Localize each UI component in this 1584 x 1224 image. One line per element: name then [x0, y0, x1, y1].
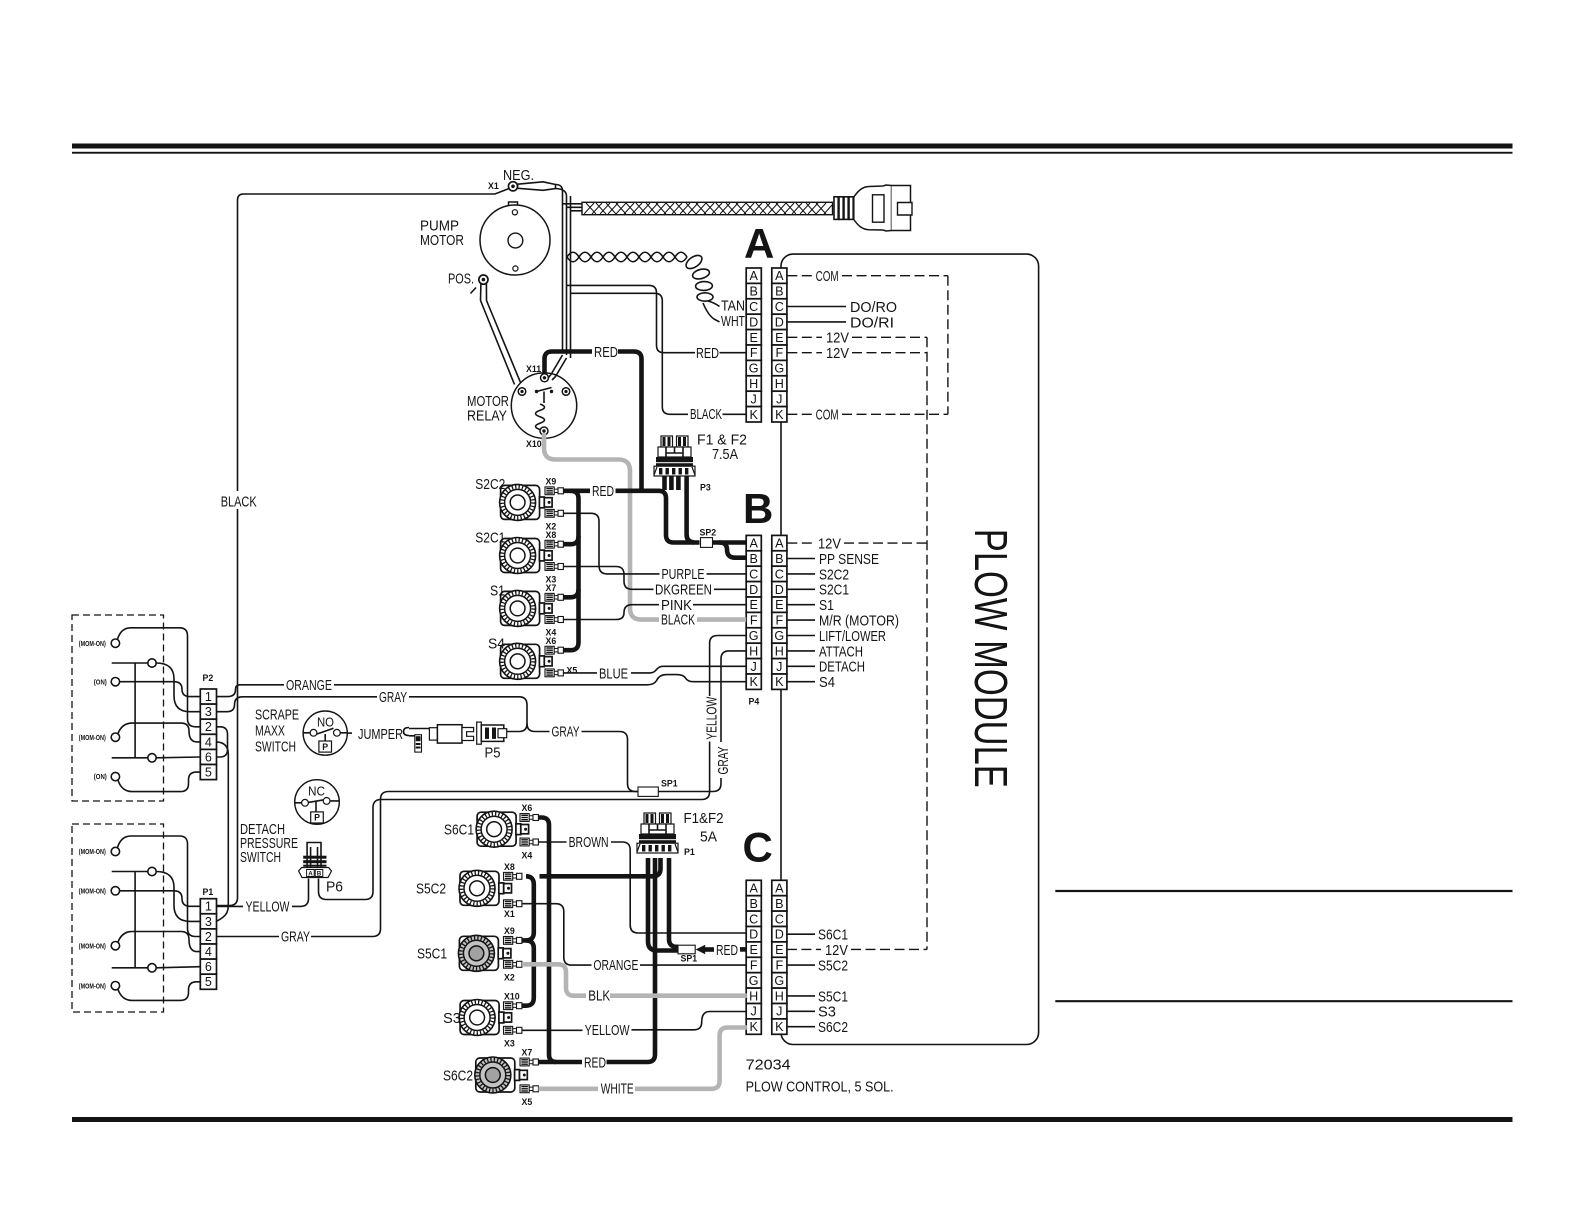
POS ring terminal: [471, 275, 489, 301]
svg-text:(ON): (ON): [94, 773, 108, 781]
twisted pair bend down: [684, 253, 713, 301]
gray wire relay X10 to B-F: [544, 433, 659, 620]
connector B left column: [746, 535, 761, 689]
svg-text:X8: X8: [504, 862, 515, 872]
svg-text:S6C2: S6C2: [443, 1067, 473, 1084]
svg-text:(ON): (ON): [94, 678, 108, 686]
thick branch to B-B: [719, 543, 746, 558]
svg-text:SP1: SP1: [661, 779, 678, 789]
wire DO/RI A-D: [787, 321, 846, 323]
jumper wires to P5: [409, 729, 429, 736]
svg-text:P5: P5: [485, 745, 501, 762]
svg-text:NC: NC: [308, 783, 325, 798]
NC switch: [295, 780, 340, 825]
X5 plug bottom: [520, 1085, 538, 1093]
fuse P3 stub 4: [687, 476, 695, 543]
dashed 12V wire A-F: [787, 352, 822, 354]
P2 connector: [200, 689, 216, 780]
X7 plug: [520, 1058, 538, 1066]
svg-text:P1: P1: [203, 887, 214, 897]
box1 wire c1 to P2-2: [118, 628, 201, 727]
X6 plug: [520, 814, 538, 822]
thick X8 wire to fuse 5A: [540, 858, 661, 876]
SP2 splice: [701, 538, 713, 548]
svg-text:S2C2: S2C2: [475, 476, 505, 493]
wire C-K S6C2: [787, 1026, 815, 1028]
box1 link c2-c5: [134, 663, 136, 758]
svg-text:BLUE: BLUE: [599, 665, 628, 682]
box2 wire c2 to P1-3: [156, 872, 200, 922]
svg-text:PLOW MODULE: PLOW MODULE: [965, 529, 1017, 788]
svg-text:X1: X1: [504, 909, 515, 919]
box2 wire c3 to P1-1: [120, 891, 201, 907]
box2 wire c2 stub: [112, 871, 148, 873]
wire SP1 to GRAY riser to B-H: [658, 778, 721, 792]
P5 connector left half: [429, 725, 473, 743]
box2 wire c5 to P1-6: [156, 967, 200, 968]
X7 plug: [545, 593, 563, 601]
connector C right column: [772, 880, 787, 1034]
thick wire SP2 to B-A: [713, 540, 747, 545]
thick trunk X8-X9: [522, 876, 534, 940]
solenoid S2C2: [500, 484, 553, 520]
svg-text:SWITCH: SWITCH: [240, 849, 281, 866]
POS cable to relay: [481, 301, 521, 385]
top border rule thin: [72, 152, 1513, 154]
fuse 5A stub to SP1 left: [648, 858, 678, 951]
svg-text:RED: RED: [696, 345, 719, 362]
fuse F1&F2 5A (P1): [637, 813, 678, 853]
wire X3 YELLOW to C-J: [522, 1029, 583, 1031]
dashed COM wire A-K: [787, 413, 812, 415]
trim connector: [415, 735, 422, 752]
svg-text:NEG.: NEG.: [503, 167, 534, 184]
wire C-D S6C1: [787, 933, 815, 935]
svg-text:JUMPER: JUMPER: [358, 726, 403, 743]
svg-text:S6C1: S6C1: [818, 927, 848, 944]
solenoid S5C1 (gray): [458, 935, 511, 971]
braided cable: [582, 202, 833, 214]
svg-text:X7: X7: [522, 1048, 533, 1058]
pump motor: [480, 202, 550, 275]
wire GRAY to P5 junction: [409, 697, 527, 732]
svg-text:SP2: SP2: [700, 528, 717, 538]
svg-text:WHITE: WHITE: [601, 1081, 634, 1098]
svg-text:P6: P6: [326, 879, 343, 896]
svg-text:P4: P4: [749, 697, 760, 707]
X3 plug bottom: [504, 1026, 522, 1034]
wire B-C S2C2: [787, 573, 815, 575]
wire X1 ORANGE to C-F: [522, 904, 592, 965]
SP1 splice left: [638, 787, 658, 796]
svg-text:GRAY: GRAY: [715, 747, 732, 775]
svg-text:X10: X10: [526, 439, 542, 449]
box1 wire c6 to P2-5: [118, 772, 200, 792]
svg-text:GRAY: GRAY: [379, 689, 407, 706]
box1 c5 left stub: [112, 757, 148, 759]
svg-text:X3: X3: [504, 1039, 515, 1049]
box2 wire c6 to P1-5: [118, 982, 200, 1001]
X2 plug: [545, 509, 563, 517]
solenoid S6C2 (gray): [475, 1057, 528, 1093]
svg-text:F1&F2: F1&F2: [684, 810, 724, 827]
svg-text:YELLOW: YELLOW: [246, 898, 291, 915]
svg-text:P: P: [314, 813, 320, 823]
NO switch: [303, 711, 347, 755]
svg-text:S2C1: S2C1: [475, 530, 505, 547]
thick RED wire from S2C2 X9 along top of B: [563, 488, 590, 493]
svg-text:DKGREEN: DKGREEN: [655, 581, 712, 598]
dashed 12V wire A-E: [787, 336, 822, 338]
svg-text:ORANGE: ORANGE: [286, 677, 332, 694]
svg-text:GRAY: GRAY: [552, 724, 580, 741]
svg-text:S5C1: S5C1: [417, 946, 447, 963]
box1 wire c2 to P2-3: [156, 663, 200, 712]
wire BLACK to A-K: [571, 293, 689, 414]
X6 plug: [545, 646, 563, 654]
wire P6-B to YELLOW riser to B-G: [319, 742, 710, 900]
wire P1-2 GRAY up to SP1: [217, 936, 280, 938]
connector A left column: [746, 268, 761, 422]
svg-text:BLK: BLK: [588, 988, 610, 1005]
wire X5 to B-J (BLUE): [563, 672, 597, 674]
svg-text:BLACK: BLACK: [661, 612, 695, 629]
dashed COM loop vertical: [947, 276, 949, 415]
gray wire X5 WHITE to C-K: [538, 1087, 598, 1092]
svg-text:X5: X5: [567, 666, 578, 676]
P5 connector right half: [477, 722, 507, 744]
thick wire S6C1-X6 down to RED trunk: [538, 818, 582, 1063]
svg-text:GRAY: GRAY: [281, 929, 310, 946]
box2 wire c1 to P1-2: [118, 836, 201, 937]
svg-text:ORANGE: ORANGE: [593, 957, 638, 974]
box2 c5 left stub: [112, 967, 148, 969]
svg-text:5A: 5A: [700, 829, 717, 846]
wire RED to A-F: [567, 285, 696, 352]
svg-text:C: C: [743, 824, 773, 871]
thick wire arrow to RED to C-E: [703, 947, 714, 952]
X4 plug: [545, 616, 563, 624]
svg-text:12V: 12V: [825, 942, 848, 959]
wire GRAY branch to GRAY2: [527, 724, 550, 732]
svg-text:SWITCH: SWITCH: [255, 739, 296, 756]
svg-text:X7: X7: [546, 583, 557, 593]
svg-text:COM: COM: [816, 268, 839, 285]
motor relay: [511, 373, 576, 438]
connector C left column: [746, 880, 761, 1034]
svg-text:X1: X1: [488, 181, 499, 191]
wire DO/RO A-C: [787, 306, 846, 308]
thick RED wire from relay X11: [545, 352, 593, 375]
cable end rings: [834, 197, 853, 220]
svg-text:B: B: [317, 871, 322, 878]
vehicle-side plug: [854, 185, 912, 231]
svg-text:S6C2: S6C2: [818, 1019, 848, 1036]
svg-text:P3: P3: [700, 483, 711, 493]
X2 plug bottom: [504, 960, 522, 968]
svg-text:X9: X9: [504, 926, 515, 936]
wire B-H ATTACH: [787, 650, 815, 652]
X9 plug: [545, 487, 563, 495]
svg-text:12V: 12V: [826, 345, 849, 362]
box1 wire c2 stub: [112, 662, 148, 664]
bottom border rule: [72, 1117, 1513, 1122]
svg-text:SP1: SP1: [681, 954, 698, 964]
svg-text:PINK: PINK: [661, 597, 692, 614]
fuse P3 stub 2: [669, 476, 674, 490]
jumper arc: [404, 728, 410, 736]
X9 plug bottom: [504, 937, 522, 945]
fuse P3 stub 1: [662, 476, 667, 490]
separator line upper right: [1055, 890, 1512, 892]
connector A right column: [772, 268, 787, 422]
solenoid S5C2: [459, 870, 512, 906]
wire P1-1 YELLOW: [217, 905, 244, 907]
dashed 12V wire B-A: [787, 542, 814, 544]
svg-text:BLACK: BLACK: [690, 406, 722, 423]
wire C-J S3: [787, 1010, 815, 1012]
solenoid S2C1: [500, 538, 553, 574]
svg-text:BLACK: BLACK: [221, 494, 257, 511]
svg-text:BROWN: BROWN: [569, 834, 609, 851]
thick trunk X9-X8-X7-X6: [563, 491, 578, 650]
dashed 12V bus vertical: [926, 337, 928, 949]
wire P2-4 down to P1-3: [217, 742, 229, 921]
svg-text:S5C2: S5C2: [416, 881, 446, 898]
wire X2 to B-C (PURPLE): [563, 513, 659, 574]
solenoid S3: [459, 1000, 512, 1036]
svg-text:A: A: [308, 871, 313, 878]
wire GRAY2 down to SP1: [582, 732, 639, 792]
svg-text:S5C2: S5C2: [818, 958, 848, 975]
X3 plug: [545, 563, 563, 571]
box2 switch contacts: [111, 847, 156, 990]
twisted pair tails to TAN/WHT: [708, 301, 720, 307]
NEG ring terminal: [508, 182, 555, 191]
box2 wire c4 to P1-4: [118, 932, 200, 952]
svg-text:X5: X5: [522, 1097, 533, 1107]
svg-text:RED: RED: [594, 344, 618, 361]
svg-text:(MOM-ON): (MOM-ON): [79, 640, 106, 648]
wire X4 to B-E (PINK): [563, 605, 659, 620]
wire C-F S5C2: [787, 964, 815, 966]
wire B-F M/R: [787, 619, 815, 621]
wire X3 to B-D (DKGREEN): [563, 567, 653, 590]
svg-text:(MOM-ON): (MOM-ON): [79, 848, 106, 856]
solenoid S6C1: [476, 811, 528, 847]
X8 plug: [545, 540, 563, 548]
box1 switch contacts: [111, 639, 156, 781]
svg-text:B: B: [743, 485, 773, 532]
svg-text:SCRAPE: SCRAPE: [255, 707, 299, 724]
svg-text:X11: X11: [526, 364, 541, 374]
wire B-K S4: [787, 681, 815, 683]
wire GRAY riser top to B-H: [721, 651, 746, 742]
bundle branch into braid: [563, 204, 583, 211]
wire B-G LIFT/LOWER: [787, 635, 815, 637]
solenoid S4: [500, 643, 553, 679]
X7 stub to trunk: [563, 589, 578, 597]
X1 plug: [504, 900, 522, 908]
svg-text:DO/RI: DO/RI: [850, 314, 894, 331]
P1 connector: [200, 899, 216, 990]
svg-text:RELAY: RELAY: [467, 408, 507, 425]
svg-text:P1: P1: [684, 847, 695, 857]
svg-text:YELLOW: YELLOW: [585, 1022, 631, 1039]
svg-text:(MOM-ON): (MOM-ON): [79, 887, 106, 895]
X5 plug: [545, 669, 563, 677]
svg-text:(MOM-ON): (MOM-ON): [79, 734, 106, 742]
svg-text:X6: X6: [546, 636, 557, 646]
thick trunk X9-X10: [522, 940, 534, 1005]
svg-text:COM: COM: [816, 407, 839, 424]
svg-text:RED: RED: [592, 483, 614, 500]
X8 stub to trunk: [563, 536, 578, 544]
svg-text:X6: X6: [522, 803, 533, 813]
dashed switch box 1: [72, 615, 164, 801]
svg-text:P: P: [322, 742, 328, 752]
svg-text:MOTOR: MOTOR: [420, 232, 464, 249]
X4 plug: [520, 838, 538, 846]
wire X4 BROWN to C-D: [538, 841, 566, 843]
svg-text:X8: X8: [546, 530, 557, 540]
svg-text:S3: S3: [443, 1010, 461, 1027]
SP1 splice at C: [678, 945, 695, 954]
svg-text:A: A: [744, 220, 774, 267]
X10 plug bottom: [504, 1002, 522, 1010]
svg-text:RED: RED: [716, 942, 738, 959]
svg-text:P2: P2: [203, 673, 214, 683]
svg-text:S4: S4: [488, 636, 505, 653]
wire B-B PP SENSE: [787, 558, 815, 560]
svg-text:PLOW CONTROL, 5 SOL.: PLOW CONTROL, 5 SOL.: [746, 1079, 894, 1096]
svg-text:(MOM-ON): (MOM-ON): [79, 942, 106, 950]
gray wire X2 BLK to C-H: [522, 964, 586, 995]
connector B right column: [772, 535, 787, 689]
fuse 5A stub 4 to SP1: [669, 858, 678, 947]
svg-text:72034: 72034: [746, 1057, 791, 1074]
svg-text:YELLOW: YELLOW: [703, 696, 720, 740]
box1 wire c5 to P2-6: [156, 756, 200, 759]
svg-text:S1: S1: [490, 583, 505, 600]
P6 connector symbol: [299, 843, 332, 878]
svg-text:POS.: POS.: [448, 271, 474, 288]
fuse P3 stub 3: [676, 476, 681, 490]
top border rule thick: [72, 144, 1513, 149]
separator line lower right: [1055, 1000, 1512, 1002]
svg-text:(MOM-ON): (MOM-ON): [79, 982, 106, 990]
NEG cable bundle to braid and down: [556, 185, 563, 352]
svg-text:7.5A: 7.5A: [712, 446, 738, 463]
arrow into SP1: [696, 945, 706, 954]
box1 wire c3 to P2-1: [120, 682, 201, 697]
X7 wire to RED trunk: [538, 1060, 556, 1065]
wire ORANGE P2-1 to B-K: [217, 685, 285, 697]
wire C-H S5C1: [787, 995, 815, 997]
svg-text:X10: X10: [504, 991, 520, 1001]
svg-text:X4: X4: [522, 850, 533, 860]
dashed switch box 2: [72, 824, 164, 1012]
dashed COM wire A-A: [787, 275, 812, 277]
wire P2-2 jumper loop to P2-6: [217, 727, 228, 757]
wire B-J DETACH: [787, 665, 815, 667]
wire NO to jumper: [347, 732, 352, 734]
svg-text:S6C1: S6C1: [444, 822, 474, 839]
PLOW MODULE box: [781, 254, 1039, 1044]
X11 lug from cable: [548, 355, 567, 380]
thick RED trunk to fuse 5A: [607, 858, 656, 1062]
box1 wire c4 to P2-4: [118, 723, 200, 742]
X8 plug bottom: [504, 872, 522, 880]
svg-text:S4: S4: [819, 674, 835, 691]
svg-text:WHT: WHT: [721, 313, 745, 330]
svg-text:NO: NO: [317, 715, 334, 730]
dashed 12V wire C-E: [787, 948, 821, 950]
wire YELLOW riser top to B-G: [710, 636, 747, 697]
svg-text:MAXX: MAXX: [255, 723, 285, 740]
solenoid S1: [500, 590, 553, 626]
box2 link c2-c5: [134, 872, 136, 968]
wire B-D S2C1: [787, 588, 815, 590]
twisted pair horizontal: [567, 252, 687, 262]
wire B-E S1: [787, 604, 815, 606]
svg-text:RED: RED: [584, 1055, 606, 1072]
wire P2-3 to GRAY: [217, 697, 378, 712]
wire X1 black to P1-1 (long left vertical): [238, 189, 510, 492]
svg-text:X9: X9: [546, 477, 557, 487]
svg-text:X2: X2: [504, 973, 515, 983]
